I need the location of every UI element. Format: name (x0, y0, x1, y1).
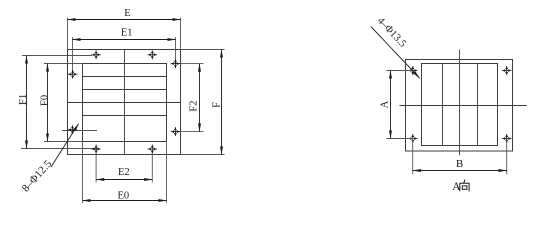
bolt hole right view top-right (502, 66, 511, 75)
bolt hole right-lower (171, 127, 180, 136)
dimension F0 (39, 64, 50, 142)
svg-text:E1: E1 (121, 28, 133, 39)
bolt hole top-right (148, 50, 157, 59)
bolt hole right-upper (171, 59, 180, 68)
dimension F1 (18, 56, 29, 149)
extension line F0 top (44, 63, 83, 65)
bolt hole bottom-right (148, 145, 157, 154)
dimension E (68, 8, 181, 20)
louver inner frame (83, 64, 167, 142)
extension line F top (181, 49, 225, 51)
bolt hole right view bottom-left (408, 134, 417, 143)
svg-text:F0: F0 (39, 95, 50, 106)
duct body outline (68, 50, 181, 155)
svg-text:F2: F2 (189, 101, 200, 112)
vertical centre line right view (459, 50, 461, 156)
louver blade 2 (83, 89, 167, 91)
bolt hole bottom-left (91, 145, 100, 154)
dimension E2 (96, 167, 152, 179)
svg-text:F: F (212, 102, 223, 108)
dimension B (413, 158, 507, 171)
bolt hole left-lower (68, 125, 77, 134)
side panel line 1 (442, 64, 444, 146)
extension line A bottom (386, 138, 414, 140)
extension line E0 left (82, 142, 84, 204)
svg-text:B: B (456, 158, 463, 170)
dimension F2 (189, 64, 200, 132)
svg-text:8–Φ12.5: 8–Φ12.5 (20, 158, 55, 195)
horizontal centre line right view (400, 105, 527, 107)
side panel line 2 (477, 64, 479, 146)
svg-text:E: E (124, 8, 130, 19)
dimension E1 (73, 28, 176, 40)
svg-text:F1: F1 (18, 94, 29, 105)
side inner frame (422, 64, 498, 146)
bolt hole top-left (91, 50, 100, 59)
horizontal centre line (68, 102, 181, 104)
svg-text:A: A (379, 100, 390, 108)
extension line E1 left (72, 37, 74, 74)
extension line B right (506, 140, 508, 174)
louver blade 1 (83, 76, 167, 78)
extension line A top (386, 70, 414, 72)
bolt hole right view bottom-right (502, 134, 511, 143)
bolt hole right view top-left (408, 66, 417, 75)
svg-text:E0: E0 (117, 190, 129, 201)
svg-text:4–Φ13.5: 4–Φ13.5 (375, 15, 408, 49)
leader 8-Φ12.5 (20, 124, 79, 195)
view label A向 (452, 180, 469, 194)
louver blade 3 (83, 115, 167, 117)
dimension E0 (83, 190, 167, 201)
dimension F (212, 50, 223, 155)
extension line E0 right (166, 142, 168, 204)
flange bottom edge stub (21, 148, 98, 150)
extension line E2 right (151, 151, 153, 183)
extension line B left (412, 140, 414, 174)
extension line E2 left (95, 151, 97, 183)
flange top edge stub (22, 55, 92, 57)
svg-text:E2: E2 (118, 167, 130, 178)
extension line E left (67, 18, 69, 50)
side plate outline (406, 60, 513, 152)
vertical centre line (124, 50, 126, 155)
extension line F0 bottom (44, 141, 83, 143)
extension line F2 bottom (175, 131, 203, 133)
extension line F2 top (175, 63, 203, 65)
extension line E1 right (175, 37, 177, 64)
flange mid edge stub (62, 130, 97, 132)
extension line E right (180, 18, 182, 50)
bolt hole left-upper (68, 70, 77, 79)
extension line F bottom (181, 154, 225, 156)
dimension A (379, 71, 390, 139)
leader 4-Φ13.5 (371, 15, 420, 78)
